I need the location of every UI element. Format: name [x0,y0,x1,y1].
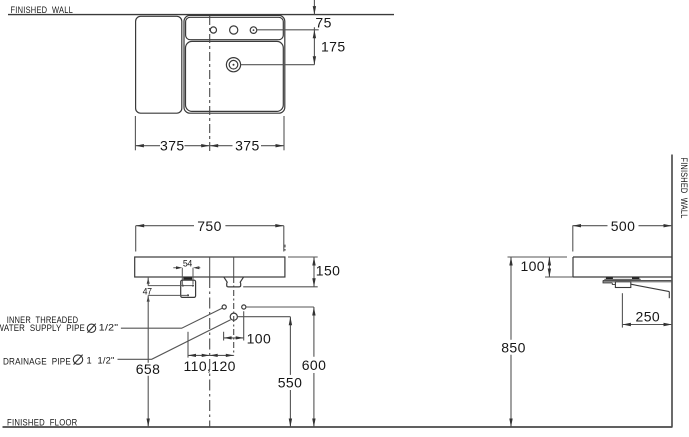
svg-text:75: 75 [315,14,331,30]
150 dim line [313,257,315,287]
front basin rectangle [135,257,285,277]
svg-text:1 1/2": 1 1/2" [87,356,115,366]
trap (drain outlet front) [224,277,243,287]
150 arrows [312,257,315,266]
850 arrows [509,257,512,266]
600 dim line [313,307,315,427]
svg-text:658: 658 [136,361,161,377]
svg-text:FINISHED WALL: FINISHED WALL [11,5,74,16]
850/100 top extension [508,256,568,258]
finished floor line [3,426,673,428]
svg-text:FINISHED WALL: FINISHED WALL [679,158,689,219]
drain pipe diagonal to wall [631,284,670,291]
110/120 extension [187,332,189,358]
500 dim line [573,225,673,227]
svg-text:750: 750 [197,218,222,234]
375 arrows [135,144,144,147]
faucet leader [241,64,315,66]
centerline segment in rect (trap) [233,257,235,277]
line under tabs [604,278,640,280]
svg-text:WATER SUPPLY PIPE: WATER SUPPLY PIPE [0,323,85,333]
658 dim line [147,278,149,427]
svg-text:250: 250 [636,308,661,324]
svg-text:500: 500 [611,218,636,234]
100 arrows [224,336,232,339]
deck band inner rect [186,17,284,39]
100 bottom extension [545,276,573,278]
47 small up arrows [147,278,150,284]
side bracket tabs (black) [606,277,613,279]
bracket hole dots [182,285,184,287]
svg-text:175: 175 [321,39,346,55]
375 dim line segments [135,145,284,147]
faucet inner circle [229,60,238,69]
54 dim: arrows outside pointing in [176,266,182,269]
500 arrows [573,224,582,227]
mounting black bar [183,277,192,279]
phi symbol supply [87,324,95,332]
750 arrows [136,224,145,227]
svg-text:550: 550 [278,374,303,390]
750 extension lines [136,226,284,252]
svg-text:110,120: 110,120 [184,358,236,374]
supply label leader [121,308,222,328]
svg-text:100: 100 [520,258,545,274]
projection dash above right corner [284,245,286,251]
trap centerline below rect [233,277,235,355]
drain label leader [118,320,231,360]
375 extension left [134,116,136,150]
top dim vertical line 75/175 [313,0,315,65]
54 extension lines [182,268,193,285]
100 side arrows [548,257,551,266]
finished wall line (plan) [8,14,394,16]
supply circle leader right [246,306,314,308]
100 dim line [224,337,244,339]
left counter rounded rect [136,16,182,113]
svg-text:47: 47 [143,286,153,296]
plan centerline [209,16,211,151]
110/120 arrows [188,354,196,357]
arrow down at faucet line (175) [313,56,316,65]
bracket rect [181,280,196,297]
svg-text:375: 375 [160,138,185,154]
658 down arrow at floor [147,419,150,428]
basin inner rect [186,41,284,111]
hole 3 leader [257,29,319,31]
54 arrow tails [173,267,200,269]
250 arrows [622,323,631,326]
supply pipe circles [222,305,226,309]
250 dim line [622,324,672,326]
500 extension [572,226,574,252]
hole 3 center dot [253,29,255,31]
slab (basin side profile) [573,257,672,277]
right outer rounded rect [184,15,285,113]
drain pipe circle [230,313,237,320]
750 dim line [136,225,284,227]
550 arrows [289,317,292,326]
mounting rail [603,280,671,281]
hole 2 [230,26,238,34]
drain circle leader right [238,316,291,318]
svg-text:150: 150 [316,263,341,279]
hole 3 [250,27,257,34]
svg-text:850: 850 [501,340,526,356]
svg-text:375: 375 [235,138,260,154]
550 dim line [289,317,291,427]
600 arrows [312,307,315,316]
svg-text:1/2": 1/2" [99,323,119,333]
bracket block (side) [615,282,630,288]
bracket notch [612,283,615,285]
main centerline below rect [209,277,211,427]
100 extensions [224,311,244,340]
svg-text:54: 54 [183,259,193,269]
47 leaders [148,286,193,296]
375 extension right [283,116,285,150]
svg-text:100: 100 [247,330,272,346]
finished wall line (side) [671,155,673,428]
trap bottom line / 150 bottom extension [243,286,318,288]
svg-text:DRAINAGE PIPE: DRAINAGE PIPE [3,356,71,366]
faucet outer circle [226,58,240,72]
phi symbol drain [73,355,82,364]
100 dim line (side) [548,257,550,277]
arrow down at wall (75) [313,6,316,15]
250 extension [621,293,623,327]
wall flange [668,292,670,299]
rail left end cap [603,280,612,283]
150 top extension [288,256,318,258]
arrow up at hole line (75/175) [313,30,316,39]
850 dim line [510,257,512,427]
hole 1 [210,27,216,33]
centerline segment in rect (main) [209,257,211,277]
faucet center dot [233,64,235,66]
110/120 dim line [188,354,234,356]
svg-text:600: 600 [302,357,327,373]
